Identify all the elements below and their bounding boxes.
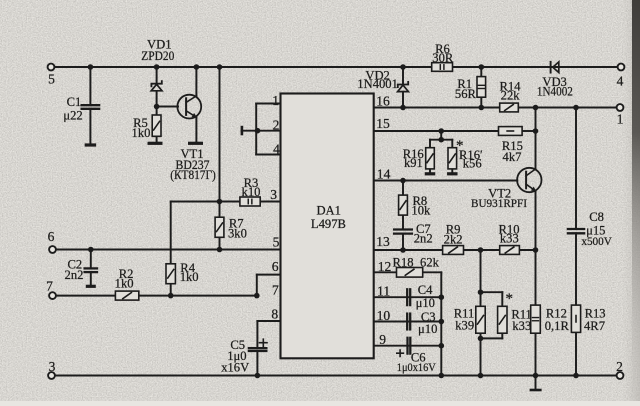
svg-text:1N4001: 1N4001 bbox=[357, 77, 398, 91]
svg-text:2: 2 bbox=[616, 359, 623, 374]
svg-text:14: 14 bbox=[377, 166, 391, 181]
svg-text:x500V: x500V bbox=[581, 234, 612, 248]
svg-text:5: 5 bbox=[48, 72, 55, 87]
svg-text:10k: 10k bbox=[411, 204, 431, 218]
svg-text:3k0: 3k0 bbox=[228, 227, 247, 241]
svg-text:DA1: DA1 bbox=[316, 204, 341, 218]
svg-text:1N4002: 1N4002 bbox=[537, 84, 573, 98]
svg-text:k33: k33 bbox=[500, 232, 519, 246]
svg-text:μ10: μ10 bbox=[416, 296, 435, 310]
svg-text:2n2: 2n2 bbox=[414, 232, 433, 246]
svg-text:4: 4 bbox=[273, 141, 280, 156]
svg-text:5: 5 bbox=[273, 235, 280, 250]
svg-text:k10: k10 bbox=[242, 185, 261, 199]
svg-text:16: 16 bbox=[376, 93, 390, 108]
svg-text:1μ0x16V: 1μ0x16V bbox=[397, 360, 436, 374]
svg-text:R18: R18 bbox=[393, 256, 414, 270]
svg-text:*: * bbox=[505, 291, 513, 307]
svg-text:k39: k39 bbox=[455, 318, 474, 332]
svg-text:1k0: 1k0 bbox=[115, 276, 134, 290]
svg-text:30R: 30R bbox=[432, 51, 454, 65]
svg-text:3: 3 bbox=[49, 359, 56, 374]
svg-text:8: 8 bbox=[271, 307, 278, 322]
svg-text:11: 11 bbox=[377, 283, 390, 298]
svg-text:56R: 56R bbox=[455, 87, 477, 101]
svg-text:BU931RPFI: BU931RPFI bbox=[471, 196, 527, 210]
svg-text:1k0: 1k0 bbox=[180, 270, 199, 284]
svg-text:2n2: 2n2 bbox=[65, 268, 84, 282]
svg-text:2: 2 bbox=[273, 117, 280, 132]
svg-text:C1: C1 bbox=[67, 95, 82, 109]
svg-text:μ10: μ10 bbox=[418, 322, 437, 336]
svg-text:k56: k56 bbox=[463, 157, 482, 171]
svg-text:2k2: 2k2 bbox=[444, 232, 463, 246]
svg-text:15: 15 bbox=[376, 116, 390, 131]
svg-text:4k7: 4k7 bbox=[503, 150, 522, 164]
svg-text:k91: k91 bbox=[404, 156, 423, 170]
svg-text:1: 1 bbox=[272, 93, 279, 108]
svg-text:ZPD20: ZPD20 bbox=[141, 49, 174, 63]
svg-text:x16V: x16V bbox=[221, 361, 249, 375]
svg-text:62k: 62k bbox=[420, 256, 440, 270]
svg-text:4R7: 4R7 bbox=[584, 319, 605, 333]
svg-text:C8: C8 bbox=[589, 210, 604, 224]
svg-text:6: 6 bbox=[272, 259, 279, 274]
svg-text:μ22: μ22 bbox=[63, 109, 82, 123]
svg-text:4: 4 bbox=[617, 74, 624, 89]
svg-text:(КТ817Г): (КТ817Г) bbox=[170, 168, 216, 182]
svg-text:3: 3 bbox=[270, 187, 277, 202]
svg-text:7: 7 bbox=[272, 282, 279, 297]
svg-text:0,1R: 0,1R bbox=[545, 319, 570, 333]
svg-text:13: 13 bbox=[376, 234, 390, 249]
svg-text:k33: k33 bbox=[512, 319, 531, 333]
svg-text:7: 7 bbox=[46, 279, 53, 294]
svg-text:12: 12 bbox=[378, 259, 392, 274]
svg-text:L497B: L497B bbox=[311, 217, 346, 231]
svg-text:1: 1 bbox=[617, 112, 624, 127]
svg-text:C4: C4 bbox=[418, 283, 433, 297]
svg-text:1k0: 1k0 bbox=[132, 126, 151, 140]
svg-text:10: 10 bbox=[377, 308, 391, 323]
svg-text:9: 9 bbox=[379, 332, 386, 347]
svg-text:6: 6 bbox=[48, 229, 55, 244]
svg-text:22k: 22k bbox=[501, 88, 521, 102]
